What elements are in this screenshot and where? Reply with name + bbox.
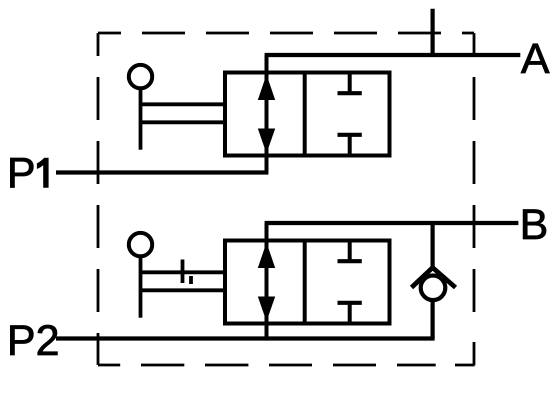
V2 closed port T (lower, right position) [338,303,362,324]
V1 lever knob [129,65,152,88]
valve V2 body (lower 2/2 directional valve) [225,241,390,324]
V2 lever fork (lower bar) [141,288,226,292]
V2 lever stem [139,256,143,317]
V2 up arrowhead [258,243,275,269]
V2 closed port T (upper, right position) [338,241,362,263]
svg-text:P2: P2 [7,317,60,365]
check valve CV1 ball (circle) [421,276,446,301]
V1 up arrowhead [258,75,275,101]
wire: V1 flow-path shaft (A to P1 through left position) [265,55,269,173]
V2 lever fork (upper bar) [141,270,226,274]
V1 lever stem [139,88,143,149]
wire: check valve branch (ball down to P2 line) [431,301,435,339]
wire: port A line [265,53,521,57]
wire: P1 supply line [56,170,268,174]
wire: vertical stub above A line [431,9,435,55]
V1 down arrowhead [258,129,275,154]
V2 lever knob [129,233,152,256]
check valve CV1 seat (V) [412,268,456,288]
V1 closed port T (upper, right position) [338,73,362,95]
valve V1 body (upper 2/2 directional valve) [225,73,390,156]
V2 down arrowhead [258,297,275,322]
wire: port B line [265,221,519,225]
V1 lever fork (lower bar) [141,120,226,124]
wire: check valve branch (B line down to seat) [431,223,435,267]
svg-text:P: P [7,150,36,198]
V2 detent tick (short) [189,276,193,284]
wire: V2 flow-path shaft (B to P2 through left position) [265,223,269,339]
V1 lever fork (upper bar) [141,102,226,106]
V1 closed port T (lower, right position) [338,135,362,156]
V2 detent tick (long) [181,260,185,284]
wire: P2 supply line [56,336,435,340]
svg-text:B: B [520,201,549,249]
dashed enclosure border (manifold block outline) [98,33,475,365]
svg-text:A: A [521,35,550,83]
